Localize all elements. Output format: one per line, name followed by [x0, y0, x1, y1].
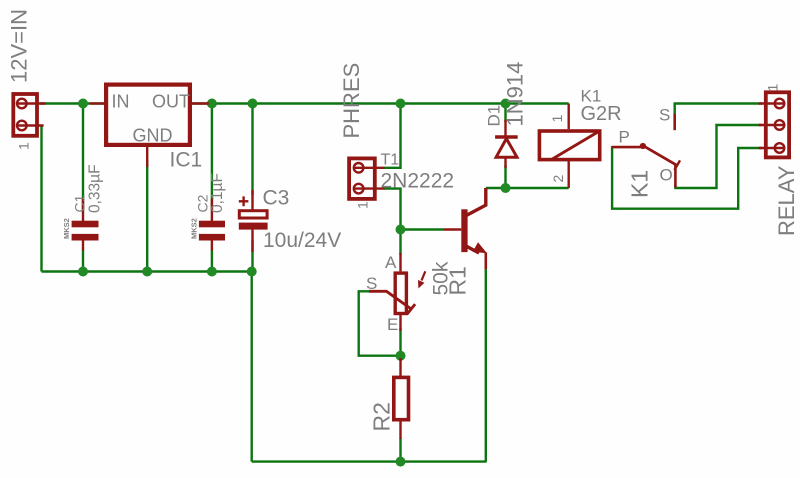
svg-text:2N2222: 2N2222	[381, 170, 455, 193]
svg-text:A: A	[385, 253, 397, 272]
svg-text:T1: T1	[381, 152, 400, 169]
svg-text:10u/24V: 10u/24V	[263, 229, 341, 252]
svg-text:1: 1	[765, 84, 781, 92]
svg-text:2: 2	[550, 175, 566, 183]
svg-text:OUT: OUT	[152, 92, 190, 112]
svg-text:1N914: 1N914	[503, 62, 528, 127]
svg-text:12V=IN: 12V=IN	[7, 9, 32, 83]
svg-text:0,33µF: 0,33µF	[87, 164, 104, 213]
svg-text:C3: C3	[263, 187, 290, 210]
svg-text:D1: D1	[485, 105, 504, 127]
svg-text:S: S	[659, 106, 670, 125]
svg-text:R1: R1	[445, 266, 471, 295]
svg-text:MKS2: MKS2	[190, 218, 199, 239]
svg-text:R2: R2	[369, 402, 395, 431]
svg-text:1: 1	[355, 201, 371, 209]
svg-text:G2R: G2R	[581, 103, 622, 125]
svg-text:O: O	[660, 166, 673, 185]
svg-text:S: S	[366, 274, 377, 293]
svg-text:RELAY: RELAY	[774, 165, 799, 236]
svg-text:1: 1	[16, 142, 32, 150]
svg-text:K1: K1	[627, 170, 653, 198]
svg-text:C1: C1	[72, 194, 88, 212]
svg-text:0,1µF: 0,1µF	[209, 173, 226, 213]
svg-text:IN: IN	[112, 92, 130, 112]
svg-text:P: P	[619, 128, 630, 147]
svg-text:GND: GND	[133, 126, 173, 146]
svg-text:PHRES: PHRES	[339, 63, 364, 139]
svg-text:IC1: IC1	[170, 149, 203, 172]
svg-text:E: E	[387, 315, 398, 334]
svg-text:1: 1	[549, 115, 565, 123]
svg-text:MKS2: MKS2	[62, 218, 71, 239]
